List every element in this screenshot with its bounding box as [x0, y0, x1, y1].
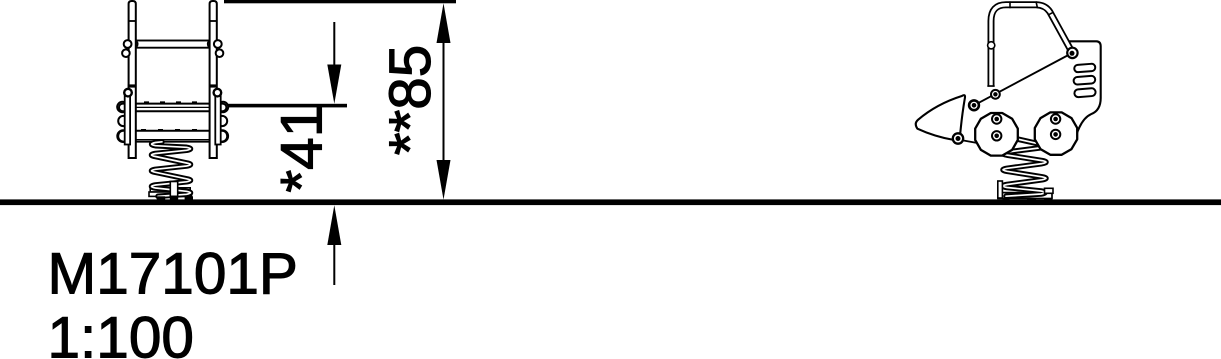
- left rider: left tube clamp: [128, 84, 137, 87]
- left rider: handlebar cross tube: [137, 41, 209, 48]
- right rider: lift arm: [974, 53, 1072, 105]
- dimension extension line: top of handles (85 level): [224, 0, 456, 3]
- left rider: left plate strip: [125, 96, 130, 145]
- left rider: mid knob left: [118, 116, 128, 126]
- left rider: footrest tube: [118, 131, 227, 142]
- right rider: spring base plate: [998, 193, 1052, 199]
- right rider: spring bracket: [998, 181, 1003, 198]
- right rider: left wheel: [975, 113, 1018, 156]
- right rider: scoop link line: [958, 140, 980, 144]
- dimension extension line: seat height (41 level): [222, 104, 347, 108]
- dimension *41 lower arrow: [327, 205, 341, 285]
- right rider: anchor feet: [1003, 198, 1053, 201]
- right rider: right wheel: [1035, 112, 1077, 154]
- left rider: right grip joint line: [210, 20, 217, 22]
- left rider: footrest dashes: [141, 129, 205, 131]
- left rider: handlebar lower knob left: [122, 49, 130, 57]
- left rider: seat bar: [119, 104, 226, 112]
- right rider: roll bar tube: [991, 5, 1072, 87]
- left rider: top knob left plate: [124, 89, 132, 97]
- right rider: left wheel hub bolt: [992, 131, 1001, 140]
- right rider: right wheel top bolt: [1051, 114, 1060, 123]
- right rider: roll bar leg end tick: [987, 85, 994, 87]
- left rider: mid knob right: [217, 116, 227, 126]
- left rider: seat cap junction lines: [124, 104, 126, 112]
- right rider: scoop lower bolt: [953, 133, 963, 143]
- left rider: handlebar lower knob right: [216, 49, 224, 57]
- right rider: roll bar tick 2: [1036, 1, 1038, 8]
- left rider: handlebar outer knob right: [214, 40, 222, 48]
- left rider: footrest cap right: [216, 130, 228, 142]
- right rider: roll bar tick 3: [1048, 12, 1053, 15]
- left rider: left handle tube: [129, 1, 136, 158]
- right rider: spring coil: [1003, 138, 1046, 196]
- left rider: footrest inner line: [137, 139, 210, 141]
- left rider: seat bar dashes: [144, 101, 205, 103]
- left rider: handlebar inner knob right: [208, 40, 215, 47]
- dimension **85 line with arrows: [437, 3, 451, 199]
- left rider: spring base lower plate: [149, 192, 192, 196]
- left rider: right plate strip: [215, 96, 220, 145]
- left rider: seat cap right: [218, 102, 228, 112]
- ground line: [0, 199, 1221, 205]
- right rider: roll bar tick 1: [1009, 1, 1011, 8]
- svg-text:1:100: 1:100: [48, 306, 194, 359]
- left rider: spring base upper plate: [150, 188, 190, 192]
- right rider: vent slots: [1072, 64, 1097, 98]
- left rider: spring center post: [170, 182, 177, 197]
- left rider: right handle tube: [210, 1, 217, 158]
- left rider: left grip joint line: [129, 20, 136, 22]
- right rider: leg bottom bolt: [991, 90, 1000, 99]
- left rider: handlebar inner knob left: [130, 40, 137, 47]
- left rider: spring coil: [152, 142, 191, 197]
- left rider: footrest cap junction lines: [124, 131, 126, 142]
- left rider: footrest cap left: [117, 130, 129, 142]
- right rider: base plate step: [1045, 188, 1054, 193]
- right rider: scoop: [916, 95, 965, 140]
- right rider: handle knob bolt: [1067, 48, 1077, 58]
- right rider: right wheel hub bolt: [1051, 130, 1060, 139]
- right rider: cab panel: [1070, 41, 1101, 136]
- left rider: handlebar outer knob left: [124, 40, 132, 48]
- svg-text:*41: *41: [270, 105, 335, 193]
- left rider: seat cap left: [117, 102, 127, 112]
- left rider: top knob right plate: [214, 89, 222, 97]
- right rider: roll bar joint circle: [988, 42, 995, 49]
- right rider: left wheel top bolt: [992, 114, 1001, 123]
- left rider: anchor feet: [157, 196, 193, 199]
- left rider: right tube clamp: [209, 84, 218, 87]
- svg-text:**85: **85: [378, 45, 443, 156]
- svg-text:M17101P: M17101P: [48, 241, 298, 306]
- right rider: scoop upper bolt: [969, 100, 979, 110]
- dimension *41 upper arrow: [327, 22, 341, 104]
- left rider: seat bar inner line: [137, 106, 210, 108]
